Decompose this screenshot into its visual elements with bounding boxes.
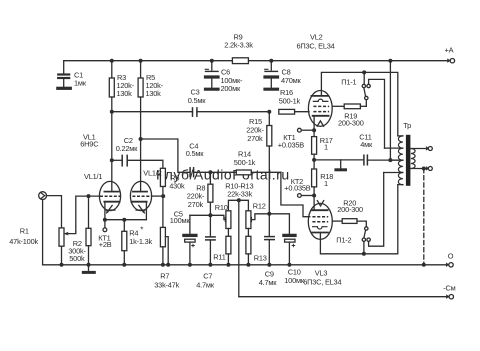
svg-text:33k-47k: 33k-47k xyxy=(154,281,179,290)
resistor R5 xyxy=(138,61,143,139)
resistor R12 preset xyxy=(246,211,251,229)
resistor R17 xyxy=(312,137,317,160)
svg-text:430k: 430k xyxy=(169,182,185,191)
resistor R20 xyxy=(332,219,366,227)
svg-text:200-300: 200-300 xyxy=(337,205,363,214)
wire: +A supply rail xyxy=(64,60,451,62)
svg-text:2.2k-3.3k: 2.2k-3.3k xyxy=(224,41,253,50)
resistor R6 xyxy=(160,168,165,196)
capacitor C1 xyxy=(58,61,69,87)
svg-text:1: 1 xyxy=(324,143,328,152)
svg-text:130k: 130k xyxy=(117,89,133,98)
wire: VL1/1 anode to plate xyxy=(111,160,113,191)
input terminal xyxy=(39,192,47,265)
switch P1-1 xyxy=(362,72,384,148)
wire: R10 wiper tap xyxy=(210,215,225,219)
svg-text:4.7мк: 4.7мк xyxy=(259,278,277,287)
svg-text:R12: R12 xyxy=(253,202,266,211)
svg-text:100мк: 100мк xyxy=(284,276,305,285)
capacitor C8 electrolytic xyxy=(265,61,278,88)
resistor R9 xyxy=(232,58,248,64)
svg-text:C7: C7 xyxy=(203,272,212,281)
resistor R16 xyxy=(279,109,309,114)
svg-text:+A: +A xyxy=(445,46,454,55)
svg-text:O: O xyxy=(448,252,454,261)
svg-text:+0.035В: +0.035В xyxy=(284,183,310,192)
wire: VL1/2 anode branch xyxy=(140,139,142,191)
svg-text:R7: R7 xyxy=(160,272,169,281)
svg-text:500-1k: 500-1k xyxy=(234,158,256,167)
wire: ground rail (bottom) xyxy=(43,264,449,266)
svg-text:6П3С, EL34: 6П3С, EL34 xyxy=(297,42,335,51)
svg-text:4.7мк: 4.7мк xyxy=(196,281,214,290)
ground under C6 xyxy=(206,88,219,91)
output terminal upper xyxy=(426,147,432,151)
capacitor C11 xyxy=(364,155,403,165)
transformer Tr primary winding xyxy=(384,136,403,185)
svg-text:П1-2: П1-2 xyxy=(336,235,351,244)
wire: -Cm bias line xyxy=(239,296,449,298)
wire: R10/R12 top bridge xyxy=(228,200,248,211)
svg-text:270k: 270k xyxy=(247,134,263,143)
wire: R12 wiper tap xyxy=(252,214,269,220)
svg-text:R10: R10 xyxy=(215,203,228,212)
node: R8/C7/C5 bias node xyxy=(190,214,211,216)
resistor R14 xyxy=(236,170,281,175)
resistor R11 xyxy=(226,229,231,265)
transformer Tr core xyxy=(406,135,411,186)
svg-text:1: 1 xyxy=(324,179,328,188)
wire: cathode common node line xyxy=(314,159,363,161)
terminal -Cm xyxy=(446,295,453,299)
wire: rail to transformer centre tap xyxy=(389,61,391,160)
svg-text:VL3: VL3 xyxy=(315,269,328,278)
svg-text:100мк: 100мк xyxy=(170,216,191,225)
wire: input to R1 xyxy=(46,196,61,228)
svg-text:VL1/2: VL1/2 xyxy=(143,169,161,178)
wire: R5 to C4 xyxy=(141,139,189,172)
resistor R7 preset xyxy=(160,196,168,265)
capacitor C2 xyxy=(112,155,163,168)
svg-text:1мк: 1мк xyxy=(74,79,87,88)
capacitor C6 electrolytic xyxy=(205,61,218,88)
resistor R13 xyxy=(246,229,251,265)
svg-text:4мк: 4мк xyxy=(360,140,373,149)
ground stub near C11 xyxy=(336,160,346,170)
output terminal lower xyxy=(426,167,432,171)
resistor R8 xyxy=(208,172,213,236)
svg-text:6П3С, EL34: 6П3С, EL34 xyxy=(303,278,341,287)
capacitor C10 electrolytic xyxy=(269,214,295,265)
svg-text:*: * xyxy=(140,226,143,235)
svg-text:R1: R1 xyxy=(20,227,29,236)
ground below R2 xyxy=(83,265,94,273)
wire: bias feed riser xyxy=(238,200,240,296)
svg-text:+0.035В: +0.035В xyxy=(278,140,304,149)
capacitor C9 xyxy=(265,214,274,265)
test point KT1 (+0.035V) xyxy=(298,128,315,132)
svg-text:200-300: 200-300 xyxy=(338,118,364,127)
svg-text:470мк: 470мк xyxy=(281,76,302,85)
tube VL3 pentode (inverted) xyxy=(308,201,332,240)
svg-text:R11: R11 xyxy=(213,252,225,261)
wire: VL3 anode line to transformer xyxy=(320,185,397,254)
svg-text:VL2: VL2 xyxy=(310,32,323,41)
wire: dashed feedback link xyxy=(423,169,425,265)
ground under C1 xyxy=(58,87,71,90)
wire: VL1/1 cathode lead xyxy=(104,202,106,220)
svg-text:270k: 270k xyxy=(188,200,204,209)
svg-text:47k-100k: 47k-100k xyxy=(9,237,38,246)
svg-text:-См: -См xyxy=(443,283,455,292)
wire: cathode bus VL1 xyxy=(105,219,146,221)
svg-text:6Н9С: 6Н9С xyxy=(80,140,99,149)
capacitor C3 xyxy=(112,108,269,116)
resistor R3 xyxy=(109,61,114,161)
resistor R15 xyxy=(267,112,272,214)
svg-text:VL1/1: VL1/1 xyxy=(84,172,102,181)
capacitor C7 xyxy=(206,237,215,265)
resistor R2 xyxy=(86,196,91,265)
svg-text:0.5мк: 0.5мк xyxy=(188,96,206,105)
wire: R14 to VL3 grid staircase xyxy=(281,172,310,216)
svg-text:R13: R13 xyxy=(254,253,267,262)
svg-text:200мк: 200мк xyxy=(221,84,242,93)
svg-text:1k-1.3k: 1k-1.3k xyxy=(129,237,152,246)
resistor R10 preset xyxy=(226,211,231,229)
svg-text:130k: 130k xyxy=(146,89,162,98)
capacitor C5 electrolytic xyxy=(184,215,196,264)
tube VL1/2 triode xyxy=(130,181,151,213)
resistor R18 xyxy=(312,160,317,196)
switch P1-2 xyxy=(362,173,384,254)
svg-text:Тр: Тр xyxy=(403,121,411,130)
potentiometer R1 xyxy=(59,228,76,265)
resistor R4 xyxy=(122,220,127,265)
resistor R19 xyxy=(332,104,366,109)
svg-text:+2В: +2В xyxy=(99,240,112,249)
svg-text:П1-1: П1-1 xyxy=(341,77,356,86)
wire: VL2 cathode lead xyxy=(313,116,315,137)
wire: VL1/2 cathode lead xyxy=(145,202,147,220)
svg-text:0.22мк: 0.22мк xyxy=(116,144,138,153)
tube VL1/1 triode xyxy=(99,181,120,213)
tube VL2 pentode xyxy=(308,91,332,127)
svg-text:500k: 500k xyxy=(69,254,85,263)
wire: VL1/1 grid lead xyxy=(76,196,100,232)
terminal O xyxy=(446,263,453,267)
svg-text:500-1k: 500-1k xyxy=(279,97,301,106)
test point KT1 (+2V) xyxy=(103,220,107,232)
svg-text:22k-33k: 22k-33k xyxy=(227,189,252,198)
capacitor C4 xyxy=(190,168,236,177)
wire: VL1/2 grid lead to R6/R7 node xyxy=(152,195,163,197)
wire: VL2 anode lead and anode line to transformer xyxy=(321,72,397,135)
transformer Tr secondary winding xyxy=(411,149,428,169)
ground under C8 xyxy=(265,88,278,91)
test point KT2 (+0.035V) xyxy=(298,194,315,198)
wire: VL3 cathode lead xyxy=(313,196,315,211)
terminal +A xyxy=(448,59,455,63)
svg-text:0.5мк: 0.5мк xyxy=(186,149,204,158)
